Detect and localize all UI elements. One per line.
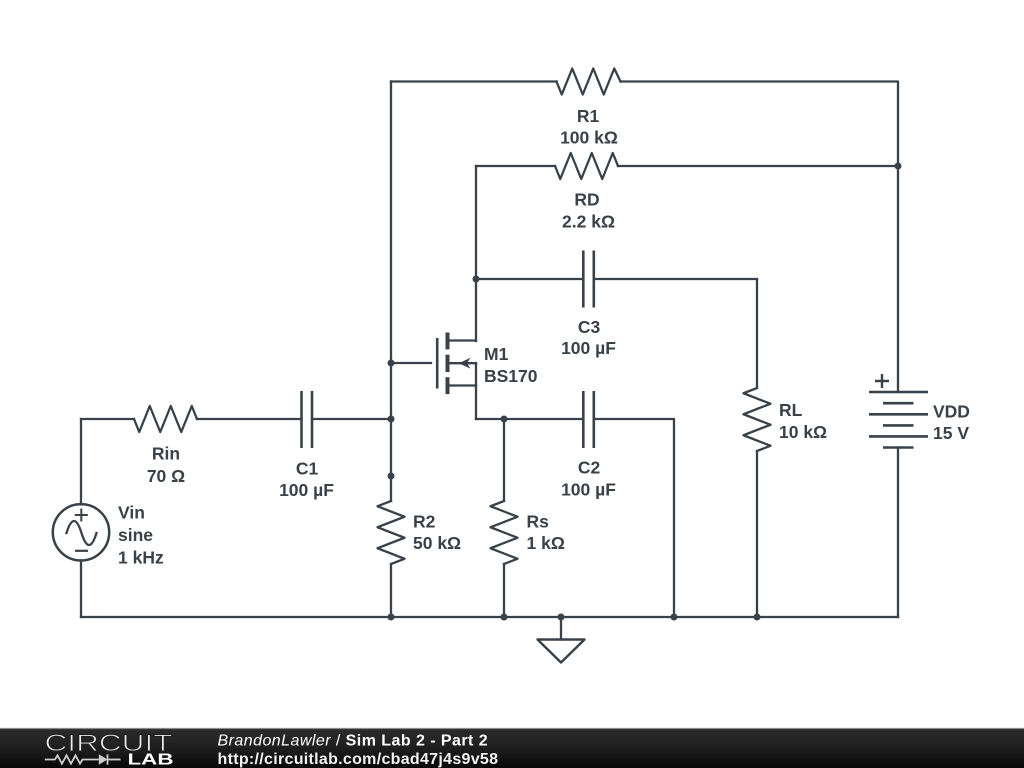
capacitor C1 <box>302 391 313 448</box>
wire C3 left <box>476 278 583 280</box>
wire RD left <box>476 165 555 167</box>
svg-text:RD: RD <box>574 190 599 210</box>
wire left vertical top <box>80 419 82 505</box>
label R1 <box>560 106 618 148</box>
label Rin <box>147 444 185 487</box>
label Vin <box>118 503 164 568</box>
label C1 <box>279 459 334 501</box>
resistor R2 <box>378 501 405 564</box>
svg-text:RL: RL <box>779 400 803 420</box>
label VDD <box>933 402 970 444</box>
label C3 <box>561 317 616 358</box>
junction source-Rs node <box>501 416 508 423</box>
wire right vertical bottom <box>897 448 899 618</box>
svg-text:50 kΩ: 50 kΩ <box>413 533 461 553</box>
wire top left <box>391 80 557 82</box>
svg-text:15 V: 15 V <box>933 423 969 443</box>
label M1 <box>484 344 538 386</box>
junction C2 return-ground rail <box>671 614 678 621</box>
svg-text:100 kΩ: 100 kΩ <box>560 128 618 148</box>
logo resistor-diode <box>45 754 121 764</box>
junction gate node <box>388 360 395 367</box>
junction RL bottom-ground rail <box>754 614 761 621</box>
wire Rs bottom <box>503 564 505 617</box>
wire source row right <box>594 419 674 617</box>
wire top right and right vertical <box>621 82 899 393</box>
voltage source Vin <box>53 504 109 560</box>
junction R2 bottom-ground rail <box>388 614 395 621</box>
svg-text:M1: M1 <box>484 344 509 364</box>
label RL <box>779 400 827 442</box>
svg-text:10 kΩ: 10 kΩ <box>779 422 827 442</box>
junction ground symbol tap <box>558 614 565 621</box>
svg-text:LAB: LAB <box>128 752 174 768</box>
wire mid vertical lower <box>390 564 392 617</box>
wire RL bottom <box>756 451 758 617</box>
wire mid vertical upper <box>390 82 392 502</box>
wire left vertical bottom <box>80 561 82 618</box>
junction Rs bottom-ground rail <box>501 614 508 621</box>
junction RD-VDD rail <box>895 163 902 170</box>
wire Vin to Rin <box>81 418 134 420</box>
svg-text:BrandonLawler / Sim Lab 2 - Pa: BrandonLawler / Sim Lab 2 - Part 2 <box>218 733 489 750</box>
svg-text:1 kHz: 1 kHz <box>118 548 164 568</box>
svg-text:BS170: BS170 <box>484 366 538 386</box>
resistor RL <box>744 388 771 451</box>
footer url <box>218 751 499 768</box>
footer bar <box>0 729 1024 768</box>
resistor RD <box>555 153 618 179</box>
wire RD right <box>618 165 898 167</box>
wire bottom rail <box>81 616 898 618</box>
wire RD left vertical <box>475 166 477 341</box>
svg-text:70 Ω: 70 Ω <box>147 466 185 486</box>
capacitor C2 <box>583 391 594 448</box>
battery VDD <box>869 374 928 448</box>
label C2 <box>561 458 616 500</box>
wire RL top <box>756 279 758 388</box>
junction drain-C3 node <box>473 276 480 283</box>
svg-text:Vin: Vin <box>118 503 145 523</box>
logo LAB <box>128 752 174 768</box>
logo CIRCUIT <box>45 730 173 757</box>
svg-text:R2: R2 <box>413 512 436 532</box>
svg-text:C2: C2 <box>578 458 601 478</box>
wire C3 right <box>594 278 757 280</box>
svg-text:100 µF: 100 µF <box>561 480 616 500</box>
svg-text:Rin: Rin <box>152 444 180 464</box>
svg-text:C1: C1 <box>296 459 319 479</box>
svg-text:100 µF: 100 µF <box>561 338 616 358</box>
capacitor C3 <box>583 251 594 308</box>
svg-text:http://circuitlab.com/cbad47j4: http://circuitlab.com/cbad47j4s9v58 <box>218 751 499 768</box>
label RD <box>562 190 615 232</box>
footer title <box>218 733 489 750</box>
junction R2 top node <box>388 473 395 480</box>
ground <box>538 617 585 663</box>
svg-text:sine: sine <box>118 525 153 545</box>
wire Rs top <box>503 419 505 501</box>
svg-text:R1: R1 <box>577 106 600 126</box>
wire Rin to C1 <box>197 418 302 420</box>
wire gate <box>391 362 431 364</box>
label Rs <box>527 512 565 554</box>
resistor Rin <box>134 406 197 432</box>
resistor Rs <box>491 501 518 564</box>
label R2 <box>413 512 461 554</box>
wire C1 to node <box>312 418 391 420</box>
svg-text:C3: C3 <box>578 317 601 337</box>
transistor M1 <box>437 333 476 420</box>
junction C1 output node <box>388 416 395 423</box>
svg-text:1 kΩ: 1 kΩ <box>527 533 565 553</box>
svg-text:VDD: VDD <box>933 402 970 422</box>
wire source row left <box>476 418 583 420</box>
svg-text:Rs: Rs <box>527 512 550 532</box>
resistor R1 <box>557 69 621 95</box>
svg-text:2.2 kΩ: 2.2 kΩ <box>562 212 615 232</box>
svg-text:100 µF: 100 µF <box>279 480 334 500</box>
